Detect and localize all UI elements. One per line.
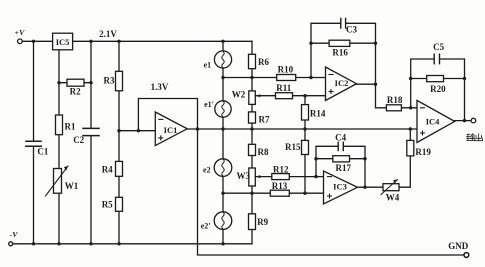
- svg-text:1.3V: 1.3V: [151, 82, 169, 92]
- wire GND drop: [198, 129, 465, 255]
- svg-text:e2': e2': [201, 222, 211, 231]
- svg-text:R4: R4: [102, 165, 113, 175]
- resistor R15: [304, 129, 306, 193]
- op-amp IC4: [417, 100, 455, 142]
- potentiometer W3: [249, 168, 256, 186]
- resistor R11: [276, 93, 293, 99]
- node -V terminal: [9, 242, 13, 246]
- resistor R18: [386, 105, 401, 111]
- svg-text:C3: C3: [346, 24, 357, 34]
- svg-text:R20: R20: [430, 84, 446, 94]
- svg-text:W4: W4: [386, 192, 400, 202]
- svg-text:W1: W1: [65, 181, 79, 191]
- wire top 2.1V rail: [22, 40, 252, 42]
- element e2': [214, 212, 232, 230]
- wire R13 line: [223, 192, 324, 194]
- wire main output bus: [187, 128, 417, 130]
- capacitor C2: [83, 128, 99, 135]
- svg-text:R16: R16: [332, 47, 348, 57]
- resistor R20: [427, 76, 444, 82]
- svg-text:R14: R14: [310, 108, 326, 118]
- svg-text:R19: R19: [415, 147, 431, 157]
- resistor R6: [249, 54, 256, 68]
- svg-text:W2: W2: [232, 90, 246, 100]
- svg-text:R18: R18: [387, 95, 403, 105]
- resistor R8: [249, 144, 256, 155]
- svg-text:R17: R17: [336, 163, 352, 173]
- wire column B: [58, 50, 60, 244]
- op-amp IC1: [155, 112, 187, 146]
- svg-text:C1: C1: [37, 147, 48, 157]
- wire C3 R16 feedback loop: [311, 23, 376, 84]
- resistor R9: [249, 214, 256, 230]
- wire column A: [33, 41, 35, 244]
- svg-text:C5: C5: [433, 42, 444, 52]
- wire R10 line: [223, 77, 326, 79]
- IC5 box: [53, 33, 73, 50]
- svg-text:R3: R3: [104, 76, 115, 86]
- wire bottom -V rail: [13, 243, 252, 245]
- svg-text:e1: e1: [204, 61, 212, 70]
- svg-text:IC1: IC1: [164, 125, 178, 135]
- resistor R10: [277, 75, 296, 81]
- svg-text:R15: R15: [285, 142, 301, 152]
- svg-text:+V: +V: [15, 28, 25, 37]
- element e1: [214, 51, 231, 68]
- node GND terminal: [464, 253, 469, 258]
- svg-text:R1: R1: [65, 121, 76, 131]
- node +V terminal: [18, 39, 23, 44]
- svg-text:R5: R5: [102, 200, 113, 210]
- wire C4 R17 feedback loop: [316, 146, 365, 187]
- element e2: [214, 159, 232, 177]
- node output terminal: [471, 118, 476, 123]
- svg-text:-V: -V: [10, 230, 19, 239]
- label output 输出: [467, 134, 483, 141]
- svg-text:IC5: IC5: [56, 37, 70, 47]
- wire C5 R20 feedback loop: [411, 59, 465, 121]
- svg-text:W3: W3: [236, 171, 250, 181]
- wire R11 line with W2 wiper: [255, 95, 325, 97]
- svg-text:R10: R10: [278, 65, 294, 75]
- resistor R7: [249, 112, 256, 123]
- resistor R3: [116, 71, 123, 91]
- capacitor C5: [434, 54, 439, 64]
- resistor R4: [116, 161, 123, 176]
- resistor R5: [116, 197, 123, 211]
- resistor R2: [67, 79, 84, 86]
- svg-text:R12: R12: [273, 164, 289, 174]
- svg-text:e1': e1': [204, 100, 214, 109]
- wire e column: [222, 41, 224, 244]
- capacitor C4: [338, 142, 343, 150]
- op-amp IC3: [324, 171, 358, 204]
- svg-text:GND: GND: [448, 241, 469, 251]
- wire IC1 input: [119, 130, 155, 132]
- svg-text:C4: C4: [335, 132, 346, 142]
- resistor R17: [333, 156, 350, 162]
- svg-text:e2: e2: [203, 166, 211, 175]
- svg-text:R8: R8: [258, 147, 269, 157]
- resistor R12: [272, 174, 290, 180]
- resistor R19: [407, 140, 414, 156]
- wire IC1 feedback loop 1.3V: [138, 99, 197, 131]
- svg-text:R7: R7: [259, 115, 270, 125]
- resistor R16: [329, 40, 350, 46]
- wire column C: [90, 41, 92, 244]
- resistor R13: [270, 190, 289, 196]
- wire R6 column: [251, 41, 253, 244]
- potentiometer W4: [383, 184, 399, 191]
- svg-text:R2: R2: [70, 87, 81, 97]
- capacitor C3: [341, 18, 346, 28]
- wire IC4 output: [455, 120, 471, 122]
- resistor R1: [56, 115, 63, 135]
- potentiometer W1: [54, 169, 62, 194]
- resistor R14: [304, 96, 306, 129]
- capacitor C1: [26, 141, 42, 146]
- svg-text:C2: C2: [73, 135, 84, 145]
- svg-text:2.1V: 2.1V: [99, 29, 117, 39]
- svg-text:IC2: IC2: [335, 78, 349, 88]
- svg-text:IC3: IC3: [333, 182, 347, 192]
- svg-text:R13: R13: [272, 181, 288, 191]
- element e1': [215, 101, 231, 117]
- svg-text:IC4: IC4: [426, 116, 440, 126]
- wire column D: [118, 41, 120, 244]
- wire IC3 output to W4: [358, 129, 411, 187]
- wire R12 line with W3 wiper: [255, 176, 323, 178]
- svg-text:R11: R11: [276, 83, 292, 93]
- op-amp IC2: [326, 67, 357, 101]
- wire R2 branch: [59, 82, 91, 84]
- svg-text:R6: R6: [258, 57, 269, 67]
- svg-text:R9: R9: [257, 217, 268, 227]
- wire IC2 output to R18: [357, 84, 418, 108]
- potentiometer W2: [249, 91, 256, 105]
